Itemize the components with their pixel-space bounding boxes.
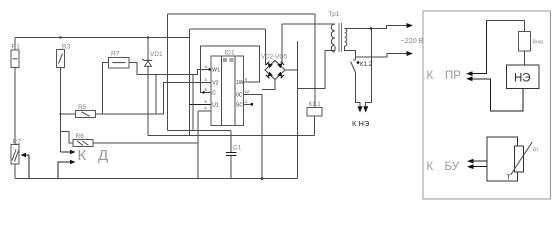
node junction dot bottom rail x262 [261,177,264,180]
capacitor C1 [230,131,232,153]
wire: top rail y38 from R1 to V1 vertical [15,37,190,39]
wire: C-pin wrap over IC top to right-side pin [200,46,259,92]
node junction dot at VD1 top [147,36,149,38]
transformer secondary winding [345,29,347,47]
wire: panel top link [486,21,524,65]
wire: R2 wiper arrow to bottom rail [25,155,29,179]
node C pin junction dot [202,91,205,94]
resistor R1 [11,50,19,68]
wire: SC stub with terminal dot [244,103,251,105]
wire: transformer primary bottom lead [298,46,335,89]
svg-text:VD1: VD1 [150,51,163,58]
svg-text:НЭ: НЭ [514,73,531,85]
node junction dot R3/R5 [59,113,61,115]
transformer primary winding [331,24,335,52]
wire: outer top rail y14 [168,13,315,15]
svg-text:1W: 1W [236,80,244,86]
resistor R2 (adjustable) [11,144,19,164]
wire: C1 top line y130.5 [168,130,231,132]
wire: R1/R2 column [14,38,16,51]
wire: x314.8 vertical from top rail through y24 down to relay K1.1 coil [314,14,316,108]
wire: y24 line bridge-right feed to transformer primary top [282,23,335,25]
wire: y29 horizontal from V1 corner to bridge left feed [190,28,266,30]
svg-text:БУ: БУ [445,161,460,173]
wire: R5 left lead [61,113,76,115]
wire: bridge bottom corner to x262 [262,80,275,90]
wire: K D arrow 1 [61,151,72,153]
svg-text:К НЭ: К НЭ [352,119,370,128]
wire: V1 long vertical x189.6 from y29 down to line B [189,29,191,136]
heater element NE box [507,65,539,89]
svg-text:Т: Т [507,175,512,182]
thermostat T box [487,137,518,181]
svg-text:R7: R7 [111,51,120,58]
svg-text:К: К [78,147,87,164]
wire: bridge right corner to x297.5 [285,69,298,71]
wire: x193 short vertical [192,75,194,131]
resistor R3 [57,50,65,68]
wire: relay K1.1 coil bottom to line B [314,116,316,136]
transformer Tp1 core [339,23,341,52]
wire: secondary top lead to ~220V upper arrow [345,26,407,29]
svg-text:W1: W1 [212,67,220,73]
wire: K BU arrows [472,160,487,162]
IC inner column lines [222,56,236,126]
svg-text:VD2-VD5: VD2-VD5 [261,54,288,61]
svg-text:Тр1: Тр1 [329,11,340,18]
IC top dashes [223,59,234,61]
wire: bridge right AC feed down [281,24,283,63]
wire: x198 column from IC bottom stub to bottom rail [197,111,199,179]
svg-text:ПР: ПР [445,70,461,82]
wire: R3 column x60.5 [60,68,62,153]
svg-text:Rт: Rт [533,148,540,154]
wire: left vertical x167.5 from top rail down to C1 top line [167,14,169,131]
svg-text:Rнаг.: Rнаг. [533,40,545,46]
resistor R6 [73,140,93,147]
wire: 0C pin out to x262 column, bridge bottom, down to bottom rail [244,95,262,179]
wire: R5 output to V2 riser and V2 pin feed [96,82,211,114]
svg-text:U1: U1 [212,103,219,109]
relay coil K1.1 [307,108,322,116]
svg-text:R2: R2 [13,139,22,146]
svg-text:К1.1: К1.1 [309,101,322,108]
wire: panel left vertical and K PR arrow 1 [471,21,486,74]
svg-text:ID1: ID1 [225,50,236,57]
IC ID1 outer box [211,56,244,126]
wire: ~220V lower arrow branch [356,54,408,58]
svg-text:SC: SC [236,102,243,108]
svg-text:К1.2: К1.2 [360,61,373,68]
svg-text:R6: R6 [76,133,85,140]
wire: x370 vertical down to K NE right arm [366,29,372,107]
svg-text:Д: Д [98,147,108,164]
wire: branch from R3 column to R6 left lead [61,132,74,143]
svg-text:R1: R1 [12,44,21,51]
node W1 pin junction dot [208,68,211,71]
wire: K1.2 lower lead to K NE left arm [356,73,361,107]
right panel box [423,11,551,199]
wire: bridge left AC feed down [265,29,267,65]
zener diode VD1 [145,61,152,66]
thermistor Rt [514,146,523,172]
wire: K PR arrow 2 looping under NE [471,79,523,111]
svg-text:R3: R3 [62,44,71,51]
svg-text:C: C [212,90,216,96]
wire: VD1 column x148 from top rail down to line B [147,38,149,136]
svg-text:12: 12 [245,89,250,94]
resistor Rnag [519,32,531,51]
svg-text:~220 В: ~220 В [401,36,424,45]
svg-text:0C: 0C [236,93,243,99]
diode bridge VD2-VD5 [265,61,285,80]
wire: x297.5 vertical (bridge right output down to bottom rail) [297,41,299,179]
wire: R7 right lead down to y74.5 run and up to W1 pin [129,63,211,75]
svg-text:К: К [427,70,434,82]
svg-text:R5: R5 [78,104,87,111]
svg-text:C1: C1 [233,145,242,152]
node junction dot at R3 top [59,36,61,38]
wire: R7 left lead down to R5 wire [103,63,109,114]
svg-text:V2: V2 [212,80,218,86]
wire: secondary bottom lead [345,46,356,60]
wire: K D arrow 2 from bottom rail [58,162,72,179]
node junction dot secondary top [370,27,373,30]
resistor R7 [109,57,130,67]
wire: bottom rail [15,178,298,180]
wire: U1 pin long feed from V1 [190,104,211,106]
switch contact K1.2 [351,62,356,73]
wire: x156 vertical linking y74.5 run to R5 wire [155,75,157,115]
wire: R6 output to x198 column [93,142,198,144]
wire: line B y135.5 from VD1 column to relay coil [148,135,315,137]
wire: IC bottom-left stub [198,110,211,112]
resistor R5 [76,111,96,118]
svg-text:К: К [427,161,434,173]
